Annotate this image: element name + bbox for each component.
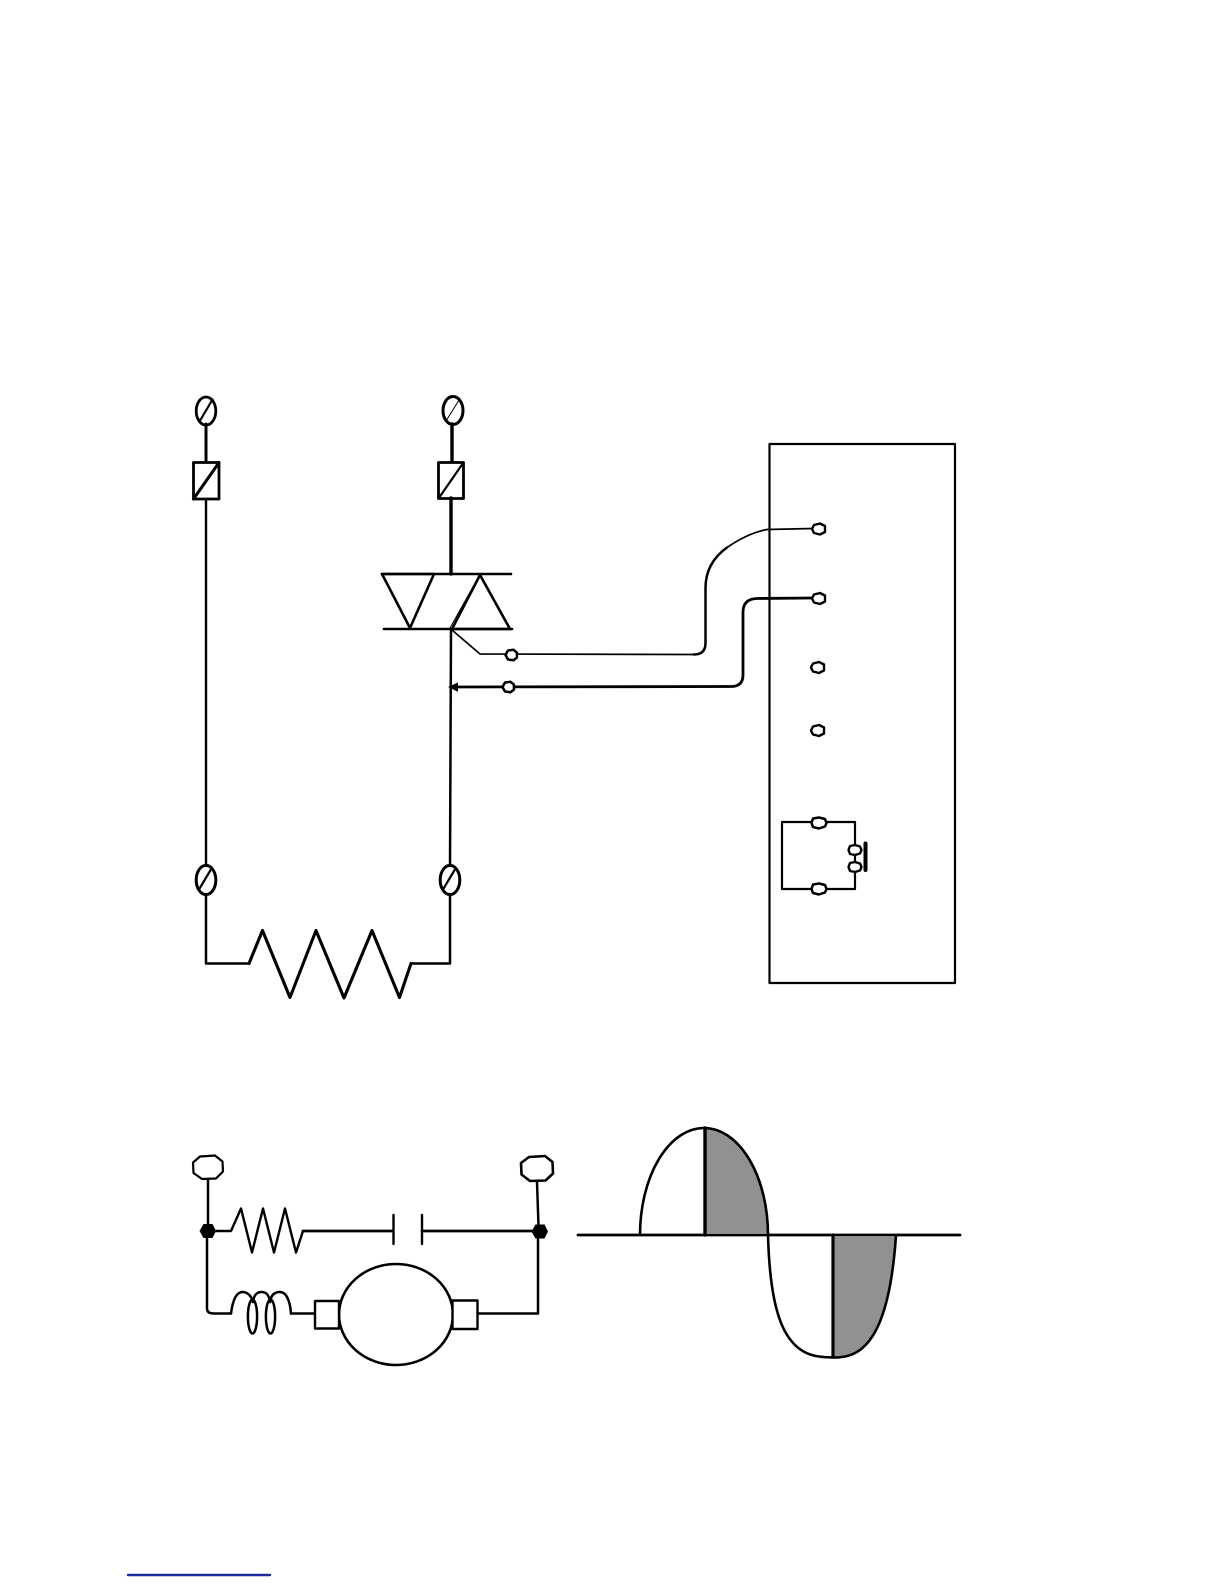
main sense wire (thick) from triac cathode to control box terminal 2 — [452, 598, 813, 687]
terminal lug on gate wire — [506, 650, 518, 660]
waveform axis — [578, 1234, 960, 1237]
gate wire (thin) from triac to control box terminal 1 — [452, 529, 813, 655]
switch box S1 — [782, 822, 855, 889]
control terminal T3 — [811, 662, 824, 673]
sine wave negative lobe — [768, 1235, 896, 1358]
control terminal T4 — [811, 725, 824, 736]
wire bottom-left terminal to resistor — [206, 894, 249, 964]
footer link underline (blue) — [128, 1574, 270, 1576]
wire-start arrow on main sense wire — [448, 683, 458, 692]
pushbutton plunger bar — [864, 844, 868, 871]
wire inductor to motor brush box — [291, 1312, 315, 1315]
firing-angle line negative (vertical at trough) — [831, 1235, 834, 1357]
firing-angle line positive (vertical at peak) — [703, 1128, 706, 1235]
wire M1 terminal to junction — [207, 1179, 210, 1227]
terminal M2 (motor circuit, top-right octagon) — [521, 1156, 553, 1181]
motor brush box right — [453, 1301, 478, 1330]
wire F1 down to bottom-left terminal — [205, 500, 207, 866]
switch terminal bottom — [812, 884, 827, 895]
terminal M1 (motor circuit, top-left octagon) — [193, 1156, 223, 1180]
terminal L2 (top-middle, slashed circle) — [443, 397, 463, 425]
capacitor C1 — [394, 1215, 423, 1244]
switch contact lower — [849, 862, 862, 872]
control terminal T2 — [812, 593, 825, 604]
wire L2 to fuse F2 — [450, 424, 453, 461]
control terminal T1 — [812, 524, 825, 535]
wire triac to bottom-middle terminal — [450, 629, 451, 866]
wire L1 to fuse F1 — [205, 424, 208, 461]
wire R2 to capacitor — [303, 1230, 392, 1233]
inductor L1 (coil humps) — [231, 1292, 291, 1334]
junction node right (solid dot) — [532, 1225, 549, 1239]
junction node left (solid dot) — [200, 1224, 217, 1238]
resistor R2 (zigzag) — [214, 1209, 303, 1253]
switch terminal top — [812, 818, 827, 829]
gray fill positive half-cycle — [705, 1128, 768, 1234]
motor M body — [339, 1264, 453, 1365]
wire M2 terminal to right junction — [537, 1182, 539, 1226]
fuse F1 — [194, 463, 220, 500]
wire capacitor to right junction — [422, 1230, 534, 1233]
resistor R1 (load, zigzag) — [249, 931, 411, 999]
wire F2 to triac — [449, 498, 452, 574]
switch contact upper — [849, 845, 862, 855]
triac Q1 — [382, 574, 512, 629]
fuse F2 — [439, 463, 464, 499]
wire resistor to bottom-middle terminal — [411, 894, 450, 964]
terminal bottom-middle (slashed circle) — [440, 865, 460, 894]
wire motor to right riser — [478, 1238, 538, 1314]
control box — [770, 444, 956, 983]
sine wave positive lobe — [640, 1128, 768, 1235]
wire left junction down to inductor — [207, 1238, 231, 1314]
motor brush box left — [315, 1301, 339, 1329]
terminal bottom-left (slashed circle) — [196, 865, 216, 894]
terminal lug on main sense wire — [503, 682, 515, 692]
gray fill negative half-cycle — [833, 1236, 896, 1357]
terminal L1 (top-left, slashed circle) — [196, 397, 216, 425]
